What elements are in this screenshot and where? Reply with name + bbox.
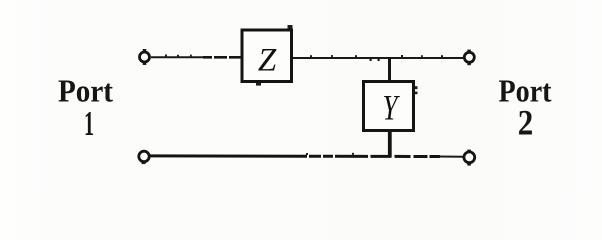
svg-text:Z: Z — [258, 43, 277, 79]
svg-text:2: 2 — [518, 102, 534, 142]
svg-text:1: 1 — [84, 104, 94, 143]
